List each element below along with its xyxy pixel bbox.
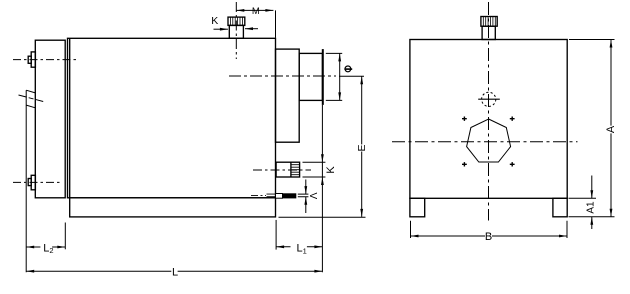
port V centerline bbox=[251, 194, 266, 196]
filler cap hatch bbox=[230, 17, 242, 25]
dim K top left arrow bbox=[214, 28, 228, 30]
dim B right extension bbox=[566, 221, 568, 238]
svg-text:E: E bbox=[356, 144, 368, 151]
port K centerline bbox=[253, 169, 311, 171]
port V body bbox=[276, 194, 283, 199]
dim E top extension bbox=[339, 75, 364, 77]
svg-text:A1: A1 bbox=[585, 201, 596, 214]
bolt mark TR bbox=[510, 117, 515, 121]
body (left view) bbox=[68, 38, 276, 198]
horizontal centerline (right view) bbox=[392, 141, 578, 143]
dim A arrows bbox=[610, 40, 613, 48]
flange plate (left end cover) bbox=[35, 40, 65, 198]
svg-text:L: L bbox=[172, 267, 178, 279]
dim phi top extension bbox=[326, 52, 342, 54]
body (right view) bbox=[410, 40, 567, 199]
dim E line lower bbox=[361, 152, 363, 217]
body left inner double line bbox=[69, 38, 71, 198]
bolt B1 centerline bbox=[13, 59, 76, 61]
dim phi bottom extension bbox=[326, 99, 342, 101]
port K outline bbox=[276, 162, 300, 177]
filler cap hatch (right view) bbox=[483, 17, 495, 27]
dim L line bbox=[26, 270, 322, 272]
dim E bottom extension bbox=[279, 216, 366, 218]
svg-text:K: K bbox=[325, 166, 337, 174]
dim L1 arrows bbox=[276, 245, 284, 248]
bolt mark BR bbox=[510, 162, 515, 166]
dim A1 top extension bbox=[569, 197, 597, 199]
dim L2 arrows bbox=[26, 246, 34, 249]
bolt B1 head bbox=[28, 56, 31, 63]
dim L2 line bbox=[26, 246, 65, 248]
dim phi line bbox=[339, 53, 341, 100]
filler cap (right view) bbox=[481, 17, 497, 27]
dim E arrows bbox=[360, 76, 363, 84]
filler neck (right view) bbox=[482, 26, 495, 39]
dim M right arrow bbox=[265, 9, 273, 12]
dim L1 left extension bbox=[275, 220, 277, 250]
dim V ext lines bbox=[298, 194, 309, 197]
dim L2 right extension bbox=[64, 223, 66, 250]
bolt B2 centerline bbox=[13, 181, 60, 183]
dim A line bbox=[610, 40, 612, 217]
svg-text:L2: L2 bbox=[43, 242, 53, 255]
extension line under shaft end (K dim / L1) bbox=[321, 105, 323, 272]
svg-text:V: V bbox=[307, 192, 318, 199]
dim K ext top bbox=[303, 161, 326, 163]
tie rod break long diagonal bbox=[19, 95, 44, 102]
gauge circle centerline bbox=[478, 98, 500, 100]
bolt B2 head bbox=[28, 179, 31, 186]
svg-text:A: A bbox=[605, 125, 617, 133]
bolt B2 washer bbox=[31, 175, 35, 190]
dim A bottom extension bbox=[569, 216, 615, 218]
dim A1 arrows bbox=[591, 176, 593, 199]
dim L arrows bbox=[26, 270, 34, 273]
vertical centerline (right view) bbox=[488, 2, 490, 221]
dim V arrows bbox=[305, 180, 307, 195]
gauge circle (dashed) bbox=[482, 92, 496, 106]
svg-text:B: B bbox=[485, 231, 492, 243]
svg-text:M: M bbox=[252, 6, 260, 17]
svg-text:L1: L1 bbox=[297, 243, 307, 256]
bolt mark TL bbox=[462, 117, 467, 121]
bolt mark BL bbox=[462, 162, 467, 166]
filler centerline (left view) bbox=[235, 2, 237, 59]
label phi (rotated) bbox=[345, 66, 351, 72]
dim phi arrows bbox=[338, 53, 341, 61]
bolt B1 washer bbox=[31, 52, 35, 67]
shaft centerline bbox=[229, 75, 336, 77]
dim B left extension bbox=[410, 221, 412, 238]
tie rod break upper diagonal bbox=[26, 90, 35, 93]
tie rod break lower diagonal bbox=[26, 105, 35, 108]
dim K arrows bbox=[321, 154, 324, 162]
dim M left arrow bbox=[236, 9, 244, 12]
port V bore lines bbox=[267, 194, 277, 197]
shaft end face bbox=[322, 49, 324, 105]
tie rod bbox=[25, 90, 27, 272]
dim B line bbox=[411, 235, 568, 237]
port V plug (black) bbox=[283, 193, 297, 198]
left foot bbox=[410, 198, 425, 217]
svg-text:K: K bbox=[211, 15, 218, 27]
dim A top extension bbox=[569, 39, 615, 41]
filler neck (left view) bbox=[229, 25, 243, 38]
dim L1 line bbox=[276, 246, 322, 248]
dim E line upper bbox=[361, 76, 363, 144]
dim K ext bottom bbox=[303, 176, 326, 178]
dim M extension line bbox=[275, 10, 277, 37]
dim B arrows bbox=[411, 235, 419, 238]
dim K top right arrow bbox=[245, 28, 258, 30]
base plate bbox=[70, 198, 276, 217]
port K thread stripes bbox=[291, 165, 300, 175]
heptagon bore bbox=[467, 119, 511, 162]
dim M line bbox=[236, 9, 273, 11]
port K thread divider bbox=[290, 162, 292, 177]
shaft pilot bbox=[299, 53, 322, 100]
shaft flange bbox=[276, 49, 300, 142]
right foot bbox=[553, 198, 567, 217]
filler cap (left view) bbox=[228, 17, 245, 25]
